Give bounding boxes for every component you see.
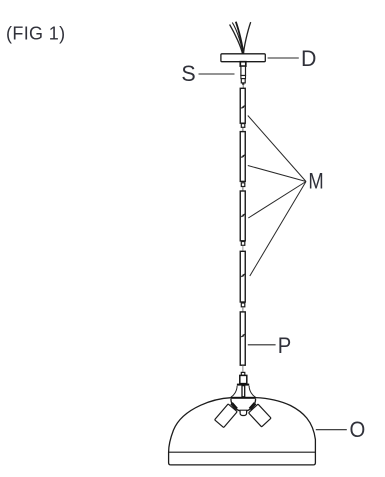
- rod M2 break mark: [241, 155, 245, 158]
- suspension connector S : nut: [241, 79, 245, 83]
- neck tube: [242, 386, 245, 397]
- suspension connector S : tip: [242, 83, 244, 85]
- svg-text:S: S: [181, 61, 195, 86]
- junction stem 4: [242, 307, 244, 312]
- socket cap block: [240, 375, 247, 383]
- rod P (lowest rod): [240, 312, 245, 365]
- svg-text:O: O: [350, 417, 366, 442]
- junction stem 2: [242, 187, 244, 191]
- hub bar: [231, 397, 256, 399]
- cap flange bar: [237, 384, 249, 386]
- suspension connector S : body: [241, 66, 246, 75]
- M leader line from rod M3: [248, 182, 306, 219]
- rod M2: [240, 132, 245, 182]
- rod M3 break mark: [241, 214, 245, 217]
- lamp base cup: [240, 410, 247, 415]
- rod M4 break mark: [241, 274, 245, 277]
- socket arm right (thick wedge): [250, 403, 255, 409]
- svg-text:M: M: [308, 169, 323, 194]
- junction stem 3: [242, 246, 244, 252]
- rod M4: [240, 251, 245, 302]
- M leader line from rod M2: [248, 166, 306, 182]
- svg-text:P: P: [278, 333, 292, 358]
- leader line to S: [199, 73, 235, 75]
- wire strand 3 (middle thick): [236, 22, 243, 55]
- rod M1: [240, 88, 245, 123]
- junction square 1: [241, 124, 245, 128]
- right lamp socket: [249, 404, 272, 427]
- ceiling plate D: [221, 54, 265, 62]
- leader line to P: [248, 344, 276, 346]
- wire strand 1 (left outer): [230, 25, 243, 55]
- junction square 3: [241, 242, 245, 246]
- M leader line from rod M1: [248, 116, 306, 182]
- bell curve right: [249, 386, 255, 397]
- left lamp socket: [215, 404, 238, 428]
- svg-text:D: D: [301, 46, 316, 71]
- socket arm left (thick wedge): [232, 403, 237, 409]
- rod M1 break mark: [241, 106, 245, 109]
- rod M3: [240, 191, 245, 241]
- junction square 2: [241, 183, 245, 187]
- junction stem 1: [242, 128, 244, 132]
- suspension connector S : collar: [240, 62, 246, 66]
- dome band line: [169, 451, 316, 453]
- suspension connector S : band: [241, 76, 246, 79]
- rod P break mark: [241, 334, 245, 337]
- suspension connector S : stem wire: [242, 85, 244, 88]
- hub bowl: [231, 399, 256, 412]
- wire strand 4 (right): [244, 22, 251, 54]
- wire strand 2 (left inner): [232, 23, 243, 55]
- junction square 4: [241, 303, 245, 307]
- svg-text:(FIG 1): (FIG 1): [6, 23, 65, 43]
- leader line to D: [268, 57, 299, 59]
- dome shade outline O: [169, 398, 316, 465]
- leader line to O: [316, 429, 347, 431]
- hanger small square: [241, 372, 245, 375]
- shade hanger stem wire: [242, 365, 244, 372]
- bell curve left: [231, 386, 237, 397]
- M leader line from rod M4: [250, 182, 306, 277]
